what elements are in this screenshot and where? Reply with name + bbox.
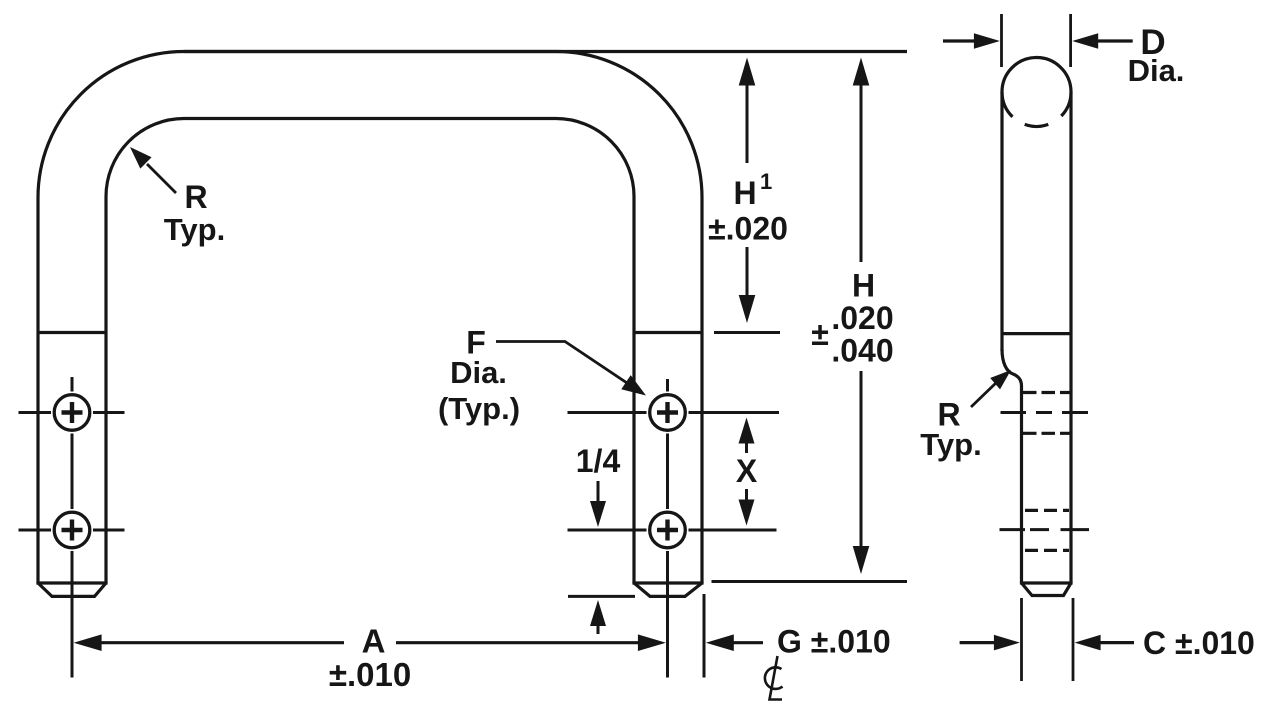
- side view: lower hole centerline (dashed with end ticks): [1000, 528, 1090, 531]
- centerline: right leg vertical through holes: [666, 379, 669, 678]
- dimension G +/-.010 (hole centerline to outer edge): [706, 624, 891, 660]
- side view: rod end circle (top bend): [1002, 58, 1071, 127]
- dimension X (between hole centerlines): [736, 418, 758, 526]
- extension line: right leg outer edge below (for G): [703, 594, 706, 678]
- svg-text:R: R: [184, 179, 207, 215]
- hole upper-left (F dia.): [54, 395, 90, 431]
- front view: left leg flat-section boundary line: [38, 331, 106, 334]
- side view: rod right edge: [1069, 92, 1072, 583]
- centerline: upper-left hole horizontal: [19, 411, 125, 414]
- centerline symbol (C-L mark under G dimension): [765, 656, 783, 700]
- side view: hidden hole outline upper (dashed): [1023, 393, 1071, 434]
- dimension C +/-.010 (flattened thickness): [960, 625, 1255, 661]
- leader F Dia. (Typ.) pointing at upper-right hole: [438, 325, 646, 427]
- side view: flattening transition radius (R typ.): [1002, 349, 1022, 583]
- svg-text:(Typ.): (Typ.): [438, 391, 520, 426]
- svg-text:A: A: [362, 623, 386, 660]
- svg-text:±.010: ±.010: [329, 656, 411, 693]
- hole upper-right (F dia.): [650, 395, 686, 431]
- extension lines for C: [1022, 598, 1074, 681]
- centerline: upper-right hole horizontal (also X / 1-4 extension): [568, 411, 780, 414]
- hole lower-right: [650, 512, 686, 548]
- front view: right leg flat-section boundary line: [634, 331, 702, 334]
- svg-text:1/4: 1/4: [576, 443, 621, 479]
- front view: right leg bottom chamfer: [632, 583, 703, 596]
- side view: hidden hole outline lower (dashed): [1025, 510, 1069, 550]
- dimension D Dia. (rod diameter): [943, 23, 1184, 88]
- dimension H +.020/-.040 (top to leg end): [712, 58, 908, 582]
- dimension 1/4 (lower hole to leg end): [568, 443, 635, 634]
- svg-text:X: X: [736, 453, 758, 489]
- svg-text:H: H: [733, 175, 756, 211]
- svg-text:1: 1: [760, 169, 772, 194]
- leader R Typ. pointing at flattening radius: [920, 370, 1011, 462]
- side view: rod left edge (round section): [1000, 92, 1003, 351]
- side view: bottom chamfer: [1020, 583, 1073, 596]
- dimension A +/-.010 (between leg hole centerlines): [74, 623, 666, 694]
- svg-text:Typ.: Typ.: [164, 212, 225, 247]
- centerline: lower-right hole horizontal (also X / 1-4 extension): [568, 529, 777, 532]
- leader R Typ. pointing at inner bend radius: [130, 147, 225, 247]
- svg-text:±: ±: [811, 316, 829, 352]
- hole lower-left: [54, 512, 90, 548]
- svg-text:±.020: ±.020: [708, 211, 788, 247]
- svg-text:Dia.: Dia.: [450, 355, 507, 390]
- front view: outer contour of handle: [38, 52, 702, 584]
- side view: flat-section boundary line: [1002, 332, 1071, 335]
- extension lines for D dia.: [1002, 14, 1071, 67]
- centerline: lower-left hole horizontal: [19, 529, 125, 532]
- side view: upper hole centerline (dashed with end ticks): [1001, 411, 1089, 414]
- svg-text:.020: .020: [831, 300, 893, 336]
- svg-text:.040: .040: [831, 333, 893, 369]
- centerline: left leg vertical through holes: [71, 377, 74, 678]
- front view: inner contour of handle: [106, 119, 634, 584]
- svg-text:Dia.: Dia.: [1128, 53, 1185, 88]
- extension line: top edge extended right for H and H1: [184, 50, 907, 53]
- svg-text:Typ.: Typ.: [920, 427, 981, 462]
- svg-text:C ±.010: C ±.010: [1143, 625, 1255, 661]
- svg-text:H: H: [852, 268, 875, 304]
- front view: left leg bottom chamfer: [36, 583, 107, 596]
- svg-text:G ±.010: G ±.010: [777, 624, 891, 660]
- dimension H1 +/-.020 (top to flat boundary): [708, 58, 788, 333]
